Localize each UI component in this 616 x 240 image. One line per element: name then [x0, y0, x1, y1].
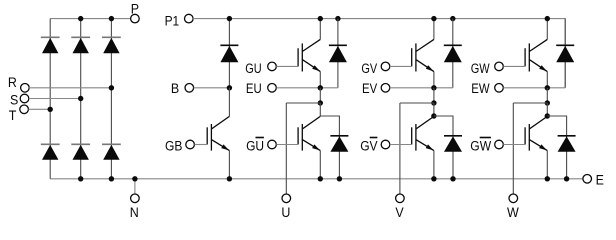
wire brake emitter — [228, 151, 230, 179]
transistor QW2 (lower, GW̅) — [525, 116, 547, 150]
wire W lower emitter — [546, 151, 548, 179]
node V lower emitter junction — [431, 176, 436, 181]
svg-text:U: U — [281, 205, 290, 221]
node U upper diode top junction — [335, 16, 340, 21]
wire V lower diode branch — [434, 116, 453, 179]
wire U lower link — [319, 103, 321, 116]
node S junction — [78, 96, 83, 101]
wire W collector — [546, 19, 548, 40]
wire U mid link — [319, 88, 321, 103]
terminal E — [583, 173, 604, 189]
node U lower diode bottom junction — [337, 176, 342, 181]
wire EV lead — [390, 87, 453, 89]
svg-text:P: P — [131, 2, 139, 18]
terminal P1 — [165, 14, 194, 30]
transistor Q7 (brake, GB) — [207, 116, 229, 150]
wire P1 rail — [193, 19, 565, 88]
wire U lower emitter — [319, 151, 321, 179]
wire EW lead — [503, 87, 565, 89]
wire U output drop — [285, 103, 287, 194]
diode DW1 (upper freewheel) — [556, 45, 574, 62]
diode DU2 (lower freewheel) — [330, 136, 348, 152]
wire U collector — [319, 19, 321, 40]
wire V output branch — [400, 102, 434, 104]
node W lower emitter junction — [545, 176, 550, 181]
wire P rail (rectifier top bus) — [50, 18, 131, 20]
node B junction — [227, 85, 232, 90]
wire U lower diode branch — [320, 116, 339, 179]
svg-text:B: B — [171, 81, 179, 97]
wire W lower link — [546, 103, 548, 116]
node brake emitter junction — [227, 176, 232, 181]
node V output junction — [431, 100, 436, 105]
wire T input — [28, 108, 50, 110]
wire B input — [194, 87, 230, 89]
wire brake collector — [228, 88, 230, 117]
terminal GV — [361, 61, 389, 77]
svg-text:EU: EU — [246, 81, 262, 97]
svg-text:T: T — [9, 108, 17, 124]
diode D5 — [71, 144, 90, 160]
wire V collector — [433, 19, 435, 40]
svg-text:S: S — [10, 92, 18, 108]
diode DW2 (lower freewheel) — [558, 136, 576, 152]
terminal T — [9, 105, 29, 124]
wire W lower diode branch — [547, 116, 566, 179]
node W top rail junction — [545, 16, 550, 21]
terminal GW̅ — [470, 138, 503, 155]
wire GU̅ gate lead — [276, 144, 298, 146]
svg-text:R: R — [8, 75, 17, 91]
wire N rail (bottom bus) — [50, 178, 583, 180]
wire V upper diode branch — [452, 19, 454, 88]
node N junction — [132, 176, 137, 181]
node brake top junction — [227, 16, 232, 21]
terminal GB — [165, 139, 194, 155]
node bottom rail junction leg2 — [78, 176, 83, 181]
terminal B — [171, 81, 194, 97]
diode D7 (brake) — [220, 45, 238, 62]
node V top rail junction — [431, 16, 436, 21]
terminal EU — [246, 81, 276, 97]
transistor QV1 (upper, GV) — [412, 39, 434, 71]
wire W output drop — [512, 103, 514, 194]
diode D3 — [102, 37, 121, 53]
node V lower diode bottom junction — [450, 176, 455, 181]
node U mid junction — [318, 85, 323, 90]
svg-text:N: N — [130, 205, 139, 221]
wire W mid link — [546, 88, 548, 103]
terminal V — [395, 194, 404, 221]
node W mid junction — [545, 85, 550, 90]
wire rectifier leg 3 — [110, 19, 112, 179]
wire W upper emitter — [546, 72, 548, 88]
svg-text:EV: EV — [362, 81, 378, 97]
diode D2 — [71, 37, 90, 53]
terminal EV — [362, 81, 390, 97]
wire GW gate lead — [503, 65, 525, 67]
node bottom rail junction leg3 — [109, 176, 114, 181]
terminal U — [281, 194, 290, 221]
diode D1 — [41, 37, 60, 53]
svg-text:GV: GV — [360, 139, 378, 155]
node W output junction — [545, 100, 550, 105]
svg-text:GW: GW — [471, 61, 490, 77]
wire EU lead — [276, 87, 338, 89]
node W lower diode bottom junction — [564, 176, 569, 181]
transistor QV2 (lower, GV̅) — [412, 116, 434, 150]
svg-text:W: W — [507, 205, 519, 221]
wire U output branch — [286, 102, 320, 104]
wire GB gate lead — [194, 144, 207, 146]
terminal N — [130, 194, 139, 221]
node top rail junction leg2 — [78, 16, 83, 21]
node R junction — [109, 85, 114, 90]
transistor QW1 (upper, GW) — [525, 39, 547, 71]
svg-text:P1: P1 — [165, 14, 180, 30]
node U output junction — [318, 100, 323, 105]
terminal R — [8, 75, 29, 92]
diode DU1 (upper freewheel) — [329, 45, 347, 62]
transistor QU2 (lower, GU̅) — [298, 116, 320, 150]
node top rail junction leg3 — [109, 16, 114, 21]
wire GU gate lead — [276, 65, 298, 67]
svg-text:EW: EW — [471, 81, 490, 97]
svg-text:GW: GW — [470, 139, 491, 155]
wire rectifier leg 2 — [80, 19, 82, 179]
terminal P — [131, 2, 140, 23]
wire V lower link — [433, 103, 435, 116]
wire V lower emitter — [433, 151, 435, 179]
node U top rail junction — [318, 16, 323, 21]
node V mid junction — [431, 85, 436, 90]
terminal W — [507, 194, 519, 221]
diode DV2 (lower freewheel) — [444, 136, 462, 152]
wire U upper diode branch — [337, 19, 339, 88]
diode DV1 (upper freewheel) — [444, 45, 462, 62]
wire W output branch — [513, 102, 547, 104]
terminal EW — [471, 81, 503, 97]
node T junction — [48, 107, 53, 112]
wire R input — [29, 87, 111, 89]
terminal GV̅ — [360, 138, 390, 155]
wire GW̅ gate lead — [503, 144, 525, 146]
transistor QU1 (upper, GU) — [298, 39, 320, 71]
wire V upper emitter — [433, 72, 435, 88]
terminal GU — [245, 61, 276, 77]
node V upper diode top junction — [450, 16, 455, 21]
diode D6 — [102, 144, 121, 160]
terminal GU̅ — [246, 138, 276, 155]
diode D4 — [41, 144, 60, 160]
svg-text:V: V — [395, 205, 404, 221]
svg-text:GB: GB — [165, 139, 182, 155]
svg-text:GU: GU — [246, 139, 264, 155]
terminal GW — [471, 61, 504, 77]
wire V output drop — [399, 103, 401, 194]
wire S input — [29, 98, 81, 100]
wire V mid link — [433, 88, 435, 103]
node V lower diode junction — [431, 113, 436, 118]
wire brake diode branch — [228, 19, 230, 88]
svg-text:GV: GV — [361, 61, 377, 77]
terminal S — [10, 92, 29, 108]
wire GV gate lead — [390, 65, 412, 67]
svg-text:E: E — [596, 173, 604, 189]
wire GV̅ gate lead — [390, 144, 412, 146]
wire W upper diode branch — [564, 19, 566, 88]
node U lower emitter junction — [318, 176, 323, 181]
svg-text:GU: GU — [245, 61, 261, 77]
wire U upper emitter — [319, 72, 321, 88]
wire N stub — [134, 179, 136, 194]
wire rectifier leg 1 — [49, 19, 51, 179]
node W lower diode junction — [545, 113, 550, 118]
